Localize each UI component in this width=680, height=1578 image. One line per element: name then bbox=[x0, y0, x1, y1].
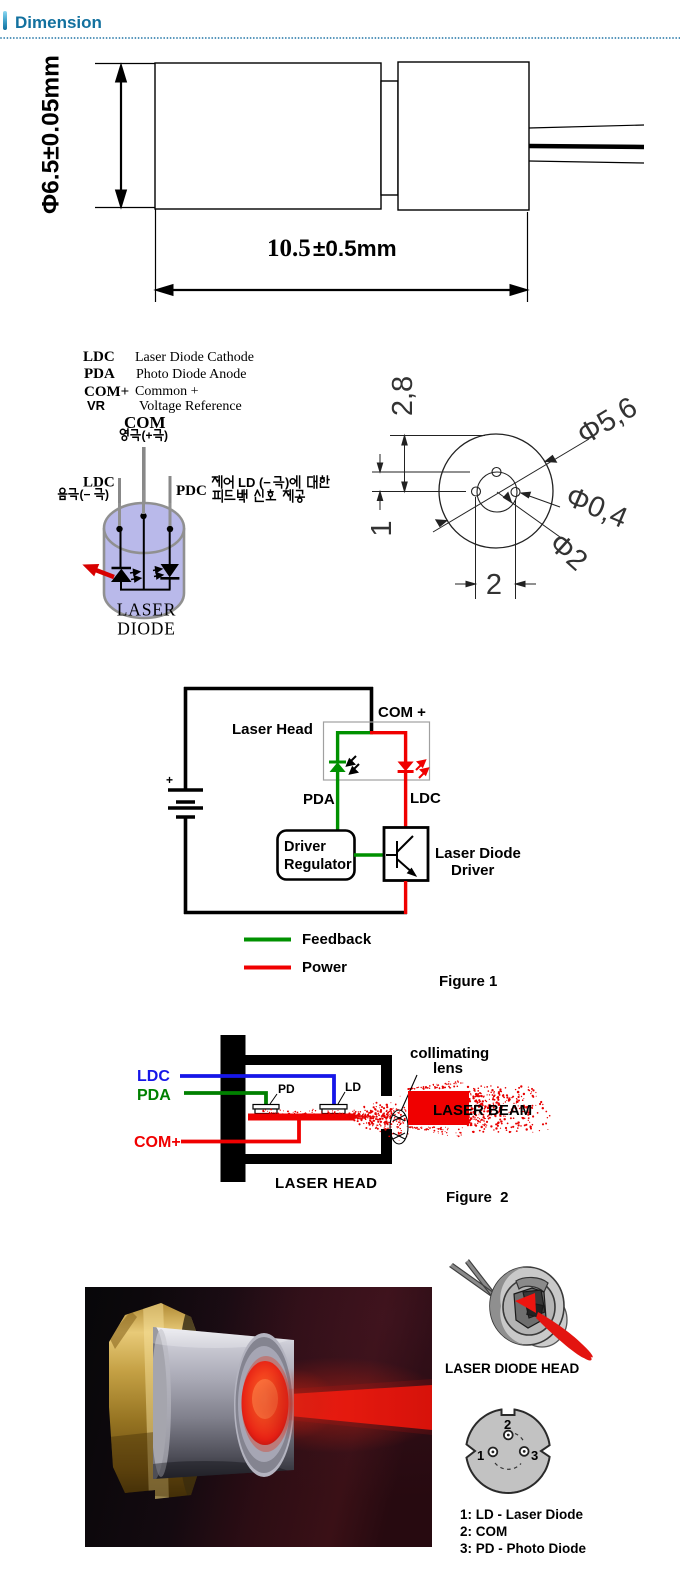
CAD inner circle Φ2 bbox=[477, 472, 517, 512]
svg-text:): ) bbox=[164, 429, 168, 443]
collimating lens bbox=[390, 1110, 408, 1144]
red beam arrow bbox=[84, 565, 115, 578]
node dot middle bbox=[140, 513, 146, 519]
transistor arrow bbox=[408, 869, 417, 877]
dim 2 arrows bbox=[455, 581, 536, 586]
wire middle thick bbox=[529, 146, 644, 147]
lens cross ticks bbox=[393, 1115, 405, 1139]
dim 2,8 vertical arrow bbox=[402, 436, 407, 492]
wire bottom black bbox=[184, 911, 407, 915]
pin 1 bbox=[489, 1448, 498, 1457]
CAD pin left bbox=[472, 487, 481, 496]
svg-text:PDA: PDA bbox=[137, 1087, 171, 1104]
svg-text:LASER BEAM: LASER BEAM bbox=[433, 1102, 532, 1119]
svg-text:Regulator: Regulator bbox=[284, 857, 352, 873]
svg-text:Figure 2: Figure 2 bbox=[446, 1189, 509, 1206]
svg-text:2: 2 bbox=[486, 569, 502, 601]
svg-text:(+: (+ bbox=[142, 429, 153, 443]
wire bottom thin bbox=[529, 161, 644, 163]
korean note line1 제어 LD(-극)에 대한 bbox=[213, 475, 330, 490]
laser head box bbox=[324, 722, 430, 780]
enclosure right wall upper bbox=[381, 1055, 392, 1096]
extension lines horizontal bbox=[372, 436, 485, 492]
svg-text:1: 1 bbox=[477, 1448, 484, 1463]
enclosure right wall lower bbox=[381, 1129, 392, 1164]
svg-text:COM +: COM + bbox=[378, 704, 426, 721]
pin wires bbox=[451, 1261, 498, 1301]
svg-text:Driver: Driver bbox=[284, 839, 326, 855]
svg-text:Figure 1: Figure 1 bbox=[439, 973, 497, 990]
enclosure top wall bbox=[246, 1055, 393, 1065]
wire COM+ red bbox=[181, 1120, 299, 1142]
SECTION: dimension drawing bbox=[0, 40, 680, 320]
svg-text:Φ6.5±0.05mm: Φ6.5±0.05mm bbox=[38, 55, 65, 214]
PD chip bbox=[253, 1105, 279, 1114]
lens leader line bbox=[401, 1075, 417, 1111]
photodiode D1 green bbox=[329, 762, 346, 772]
legend feedback line bbox=[244, 938, 291, 942]
node dot left bbox=[116, 526, 122, 532]
svg-text:PDA: PDA bbox=[303, 791, 335, 808]
pin middle (COM) bbox=[142, 447, 146, 516]
LD chip bbox=[320, 1105, 347, 1114]
wire PDA green bbox=[184, 1093, 266, 1105]
svg-text:DIODE: DIODE bbox=[117, 619, 175, 639]
laser beam solid bbox=[408, 1091, 469, 1125]
header dotted rule bbox=[0, 37, 680, 40]
svg-text:Φ5,6: Φ5,6 bbox=[572, 391, 643, 451]
svg-text:+: + bbox=[166, 773, 173, 787]
collar notch top bbox=[516, 1277, 548, 1292]
wire green COM segment bbox=[338, 733, 373, 761]
laser diode driver box U2 bbox=[384, 828, 428, 881]
SECTION: pin description + cylinder + CAD view bbox=[0, 330, 680, 660]
can flange bbox=[490, 1267, 564, 1345]
wire top black bbox=[184, 687, 373, 691]
label 양극(+극) korean bbox=[120, 429, 168, 443]
emission arrows red bbox=[416, 761, 428, 779]
CAD pin top bbox=[492, 468, 501, 477]
legend power line bbox=[244, 966, 291, 970]
svg-text:LASER DIODE HEAD: LASER DIODE HEAD bbox=[445, 1361, 580, 1376]
wire LDC blue bbox=[180, 1076, 334, 1105]
svg-text:Voltage Reference: Voltage Reference bbox=[139, 399, 242, 414]
SECTION: pinout circle bbox=[440, 1395, 640, 1510]
Φ5,6 leader diagonal bbox=[433, 439, 589, 532]
chip assembly dark bbox=[514, 1288, 546, 1328]
dim 2 extension lines vertical bbox=[476, 497, 516, 599]
dashed pin circle arc bbox=[515, 1434, 524, 1443]
svg-text:LASER HEAD: LASER HEAD bbox=[275, 1175, 378, 1192]
CAD pin right bbox=[511, 488, 520, 497]
svg-text:1: 1 bbox=[366, 520, 398, 536]
Φ2 leader bbox=[497, 492, 567, 542]
light scatter speckles bbox=[262, 1080, 551, 1141]
pin 3 bbox=[520, 1447, 529, 1456]
svg-text:VR: VR bbox=[87, 398, 106, 413]
wire red LDC down bbox=[404, 770, 407, 828]
submount bar red bbox=[248, 1114, 354, 1121]
vertical dimension arrow bbox=[116, 64, 127, 208]
svg-text:PD: PD bbox=[278, 1082, 295, 1096]
svg-text:2,8: 2,8 bbox=[387, 376, 419, 416]
wire bottom join bbox=[120, 589, 171, 591]
wire right to photodiode bbox=[169, 529, 171, 565]
svg-text:Photo Diode Anode: Photo Diode Anode bbox=[136, 367, 246, 382]
svg-text:Laser Diode Cathode: Laser Diode Cathode bbox=[135, 350, 254, 365]
SECTION: 3d laser diode head drawing bbox=[420, 1252, 620, 1380]
laser diode can body bbox=[104, 528, 184, 618]
battery B1 bbox=[168, 790, 203, 817]
Φ0,4 leader bbox=[521, 492, 560, 507]
inner ring dark bbox=[503, 1279, 555, 1335]
CAD view: can outer circle bbox=[439, 434, 553, 548]
korean note line2 피드백 신호 제공 bbox=[213, 490, 304, 502]
svg-text:lens: lens bbox=[433, 1060, 463, 1077]
svg-text:): ) bbox=[285, 475, 289, 490]
dim 1 vertical arrows outside bbox=[377, 454, 382, 510]
SECTION: photo of laser diode bbox=[85, 1287, 432, 1547]
svg-text:LD (−: LD (− bbox=[238, 475, 271, 490]
wire COM drop black bbox=[370, 687, 374, 733]
pin overlays over can bbox=[120, 490, 171, 526]
pin legend text rows bbox=[83, 349, 254, 414]
transistor Q1 bbox=[386, 836, 414, 874]
header title "Dimension" bbox=[15, 13, 102, 33]
wire red below driver bbox=[404, 881, 407, 914]
extension line left for length bbox=[155, 209, 157, 302]
extension line top bbox=[95, 63, 155, 65]
header icon bullet bbox=[3, 11, 8, 30]
svg-text:LDC: LDC bbox=[137, 1068, 170, 1085]
can cap front lower right bbox=[517, 1293, 567, 1347]
svg-text:PDC: PDC bbox=[176, 483, 207, 499]
wire left black upper bbox=[184, 687, 188, 790]
extension line right for length bbox=[527, 212, 529, 302]
pin 2 bbox=[504, 1431, 513, 1440]
rear can rectangle bbox=[398, 62, 529, 210]
svg-text:3: 3 bbox=[531, 1448, 538, 1463]
laser diode D2 red bbox=[398, 762, 414, 772]
svg-text:Φ0,4: Φ0,4 bbox=[561, 481, 632, 535]
svg-text:LASER: LASER bbox=[117, 600, 176, 620]
neck connector bbox=[381, 81, 398, 195]
svg-text:Power: Power bbox=[302, 959, 347, 976]
svg-text:Common +: Common + bbox=[135, 384, 199, 399]
laser diode symbol (left) bbox=[112, 568, 132, 590]
node dot right bbox=[167, 526, 173, 532]
svg-text:2: 2 bbox=[504, 1417, 511, 1432]
wire green PDA down bbox=[336, 771, 339, 830]
enclosure bottom wall bbox=[246, 1154, 393, 1164]
svg-text:Laser Head: Laser Head bbox=[232, 721, 313, 738]
svg-text:LDC: LDC bbox=[410, 790, 441, 807]
flange left shade bbox=[490, 1267, 527, 1345]
LD leader line bbox=[338, 1092, 345, 1104]
svg-text:COM+: COM+ bbox=[134, 1134, 181, 1151]
red inner reflection bbox=[515, 1293, 536, 1313]
driver regulator box U1 bbox=[278, 831, 355, 880]
wire red COM segment bbox=[370, 733, 406, 762]
PD leader line bbox=[270, 1094, 277, 1104]
svg-text:Driver: Driver bbox=[451, 862, 495, 879]
extension line bottom bbox=[95, 207, 155, 209]
svg-text:Feedback: Feedback bbox=[302, 931, 372, 948]
incoming light arrows black bbox=[347, 756, 359, 774]
svg-text:Laser Diode: Laser Diode bbox=[435, 845, 521, 862]
module body rectangle bbox=[155, 63, 381, 209]
wire left black lower bbox=[184, 817, 188, 914]
can outline with notches bbox=[467, 1410, 550, 1494]
wire left to diode bbox=[120, 529, 122, 568]
red beam blob bbox=[536, 1312, 593, 1359]
SECTION: figure 1 circuit bbox=[0, 660, 680, 1000]
horizontal dimension arrow bbox=[155, 285, 528, 296]
emission arrows left diode bbox=[130, 570, 141, 582]
incoming light arrows right diode bbox=[153, 567, 163, 579]
svg-text:PDA: PDA bbox=[84, 366, 115, 382]
svg-text:LDC: LDC bbox=[83, 349, 115, 365]
svg-text:±0.5mm: ±0.5mm bbox=[313, 236, 397, 261]
label 음극(-극) korean bbox=[59, 488, 110, 502]
photodiode symbol (right) bbox=[160, 565, 179, 590]
pin left (LDC) bbox=[118, 478, 121, 529]
SECTION: pinout text bbox=[460, 1506, 586, 1557]
laser diode can top ellipse bbox=[104, 503, 184, 553]
wire top thin bbox=[529, 125, 644, 128]
mounting plate bar bbox=[221, 1035, 246, 1182]
wire green feedback horizontal bbox=[354, 853, 384, 856]
svg-text:Φ2: Φ2 bbox=[543, 527, 594, 577]
svg-text:LD: LD bbox=[345, 1080, 361, 1094]
SECTION: figure 2 bbox=[0, 1020, 680, 1220]
pin right (PDC) bbox=[169, 476, 172, 529]
wire middle down bbox=[143, 516, 145, 590]
svg-text:(−: (− bbox=[80, 488, 91, 502]
svg-text:): ) bbox=[105, 488, 109, 502]
svg-text:10.5: 10.5 bbox=[267, 235, 311, 262]
